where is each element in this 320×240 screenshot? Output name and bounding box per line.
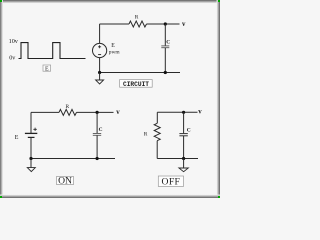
node v junction (OFF) — [182, 111, 185, 114]
wire ground lead (circuit) — [99, 73, 101, 81]
voltage source E pwm — [93, 43, 107, 57]
wire battery bottom lead — [30, 138, 32, 159]
wire ground lead (ON) — [30, 159, 32, 168]
label box E — [43, 65, 51, 72]
battery E — [25, 128, 37, 138]
svg-text:0v: 0v — [9, 55, 16, 62]
wire top rail right segment — [147, 23, 180, 25]
svg-text:R: R — [65, 104, 69, 110]
svg-text:R: R — [144, 132, 148, 138]
wire bottom rail (ON) — [31, 158, 115, 160]
wire bottom rail — [100, 72, 180, 74]
wire ground lead (OFF) — [183, 159, 185, 168]
svg-text:C: C — [187, 128, 191, 134]
wire top rail left segment — [100, 23, 130, 25]
wire OFF top rail — [157, 111, 197, 113]
node v (circuit) — [164, 22, 167, 25]
wire battery top lead — [30, 112, 32, 133]
wire capacitor bottom lead — [164, 48, 166, 73]
junction capacitor-rail — [164, 71, 167, 74]
wire capacitor top lead (ON) — [96, 112, 98, 133]
wire ON top rail right — [77, 111, 114, 113]
svg-text:v: v — [182, 21, 186, 28]
svg-text:E: E — [15, 135, 19, 141]
capacitor C (OFF) — [179, 134, 187, 136]
wire resistor bottom lead (OFF) — [156, 141, 158, 159]
ground (OFF) — [179, 168, 188, 172]
wire resistor top lead (OFF) — [156, 112, 158, 123]
svg-text:10v: 10v — [9, 38, 19, 45]
wire source bottom lead — [99, 58, 101, 73]
ground (circuit) — [96, 80, 104, 84]
wire source top lead — [99, 24, 101, 43]
wire bottom rail (OFF) — [157, 158, 198, 160]
junction capacitor-rail (ON) — [96, 157, 99, 160]
label box OFF — [158, 176, 183, 188]
resistor R1 — [129, 21, 146, 27]
svg-text:E: E — [45, 66, 49, 72]
label E pwm — [109, 43, 121, 56]
junction battery-ground (ON) — [29, 157, 32, 160]
wire capacitor bottom lead (ON) — [96, 136, 98, 159]
svg-text:CIRCUIT: CIRCUIT — [123, 81, 149, 88]
svg-text:OFF: OFF — [161, 177, 180, 188]
svg-text:pwm: pwm — [109, 50, 121, 56]
svg-text:v: v — [116, 109, 120, 116]
svg-text:C: C — [99, 127, 103, 133]
capacitor C (ON) — [93, 134, 101, 136]
resistor R (OFF) — [154, 123, 160, 140]
capacitor C1 — [161, 46, 169, 48]
svg-text:v: v — [198, 109, 202, 116]
junction source-ground — [98, 71, 101, 74]
wire capacitor bottom lead (OFF) — [183, 136, 185, 159]
node v (ON) — [96, 111, 99, 114]
waveform E pwm trace — [19, 43, 86, 59]
label box CIRCUIT — [120, 80, 153, 88]
wire capacitor top lead — [164, 24, 166, 46]
svg-text:ON: ON — [58, 176, 72, 187]
wire ON top rail left — [31, 111, 59, 113]
svg-text:R: R — [135, 15, 139, 21]
wire capacitor top lead (OFF) — [183, 112, 185, 133]
label box ON — [57, 176, 74, 187]
junction capacitor-rail (OFF) — [182, 157, 185, 160]
resistor R (ON) — [59, 109, 77, 115]
ground (ON) — [27, 168, 35, 172]
svg-text:E: E — [111, 43, 115, 49]
svg-text:C: C — [166, 39, 170, 45]
